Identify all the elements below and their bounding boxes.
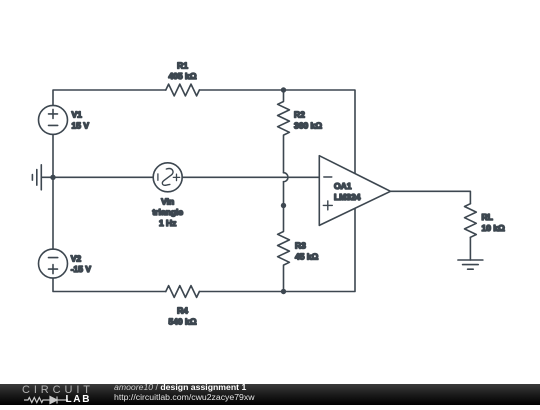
svg-text:540 kΩ: 540 kΩ [168,316,196,326]
wire V2 bottom to R4 left [53,278,166,291]
svg-text:R1: R1 [177,60,188,70]
resistor R4 [166,286,200,327]
svg-text:triangle: triangle [152,207,183,217]
ground left [32,165,53,190]
CircuitLab logo schematic line with resistor and diode [24,395,70,405]
wire V1 top to R1 left [53,90,166,105]
svg-text:OA1: OA1 [334,181,352,191]
wire RL bottom to ground [469,237,471,260]
svg-text:RL: RL [482,212,493,222]
node B junction [281,289,286,294]
CircuitLab logo word CIRCUIT [22,385,94,395]
svg-text:V1: V1 [72,109,83,119]
svg-text:R2: R2 [294,109,305,119]
footer bar [0,384,540,405]
svg-text:V2: V2 [71,253,82,263]
svg-text:1 Hz: 1 Hz [159,218,176,228]
svg-text:45 kΩ: 45 kΩ [295,251,319,261]
wire hop over mid wire [284,173,289,182]
resistor RL [465,204,506,238]
svg-text:R4: R4 [177,306,188,316]
wire op-amp output to RL [391,191,471,203]
wire hop to + input node [283,182,285,206]
resistor R1 [166,60,200,96]
resistor R2 [278,90,323,173]
svg-text:360 kΩ: 360 kΩ [294,120,322,130]
wire Vin right to op-amp inverting input [182,176,319,178]
node + input junction [281,203,286,208]
voltage source V1 [39,105,90,134]
svg-text:-15 V: -15 V [71,264,92,274]
svg-text:LM324: LM324 [334,192,361,202]
wire left rail V1 to V2 [52,134,54,249]
op-amp OA1 [319,156,390,226]
wire ground node to Vin left [53,176,153,178]
svg-text:15 V: 15 V [72,120,90,130]
svg-text:405 kΩ: 405 kΩ [168,71,196,81]
footer line 2 url [114,392,255,402]
voltage source V2 [39,249,92,278]
resistor R3 [278,206,319,292]
node A junction [281,87,286,92]
svg-text:R3: R3 [295,241,306,251]
ground right [458,260,483,269]
CircuitLab logo word LAB [66,395,92,404]
node ground junction [50,175,55,180]
source Vin triangle generator [152,163,183,228]
svg-text:Vin: Vin [161,196,174,206]
footer line 1 title [114,382,246,392]
wire R1 right to op-amp V+ stub [199,90,355,173]
wire R4 right to op-amp V- stub [199,209,355,292]
svg-text:10 kΩ: 10 kΩ [482,223,506,233]
